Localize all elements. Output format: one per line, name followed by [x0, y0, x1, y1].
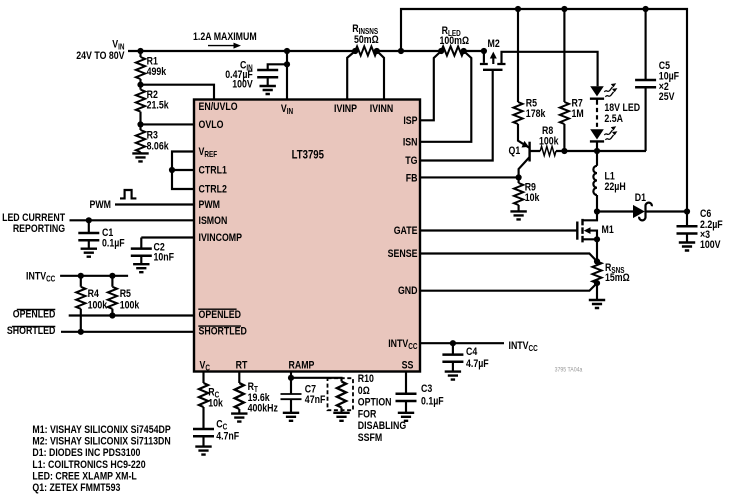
- svg-text:IVINN: IVINN: [370, 103, 393, 115]
- svg-text:FOR: FOR: [358, 409, 377, 421]
- svg-text:0.1µF: 0.1µF: [421, 395, 444, 407]
- svg-text:8.06k: 8.06k: [147, 141, 169, 153]
- svg-text:100k: 100k: [539, 136, 559, 148]
- svg-text:10k: 10k: [525, 192, 540, 204]
- svg-text:SSFM: SSFM: [358, 432, 382, 444]
- svg-text:0.1µF: 0.1µF: [102, 238, 125, 250]
- svg-text:M2: VISHAY SILICONIX Si7113DN: M2: VISHAY SILICONIX Si7113DN: [32, 436, 170, 448]
- svg-text:OVLO: OVLO: [199, 119, 224, 131]
- svg-text:22µH: 22µH: [605, 181, 626, 193]
- svg-text:PWM: PWM: [199, 199, 220, 211]
- svg-text:SENSE: SENSE: [388, 248, 418, 260]
- svg-text:SS: SS: [402, 360, 414, 372]
- svg-text:2.5A: 2.5A: [604, 113, 623, 125]
- svg-text:0Ω: 0Ω: [358, 385, 370, 397]
- svg-text:RT: RT: [236, 360, 248, 372]
- svg-text:100V: 100V: [232, 79, 253, 91]
- svg-text:100mΩ: 100mΩ: [440, 35, 470, 47]
- svg-text:100V: 100V: [700, 239, 721, 251]
- svg-text:400kHz: 400kHz: [248, 403, 278, 415]
- svg-text:3795 TA04a: 3795 TA04a: [555, 367, 583, 374]
- svg-text:M2: M2: [488, 38, 501, 50]
- svg-text:50mΩ: 50mΩ: [354, 34, 379, 46]
- svg-text:GND: GND: [398, 285, 418, 297]
- svg-text:24V TO 80V: 24V TO 80V: [76, 50, 125, 62]
- svg-text:25V: 25V: [659, 91, 675, 103]
- svg-text:47nF: 47nF: [305, 394, 326, 406]
- svg-text:4.7nF: 4.7nF: [216, 431, 239, 443]
- svg-text:C3: C3: [421, 383, 433, 395]
- svg-text:CTRL2: CTRL2: [199, 184, 228, 196]
- svg-text:21.5k: 21.5k: [147, 100, 169, 112]
- svg-text:D1: DIODES INC PDS3100: D1: DIODES INC PDS3100: [32, 447, 140, 459]
- svg-text:10k: 10k: [208, 398, 223, 410]
- svg-text:LED: CREE XLAMP XM-L: LED: CREE XLAMP XM-L: [32, 471, 136, 483]
- svg-text:M1: VISHAY SILICONIX Si7454DP: M1: VISHAY SILICONIX Si7454DP: [32, 424, 171, 436]
- svg-text:CTRL1: CTRL1: [199, 165, 228, 177]
- svg-text:OPENLED: OPENLED: [13, 309, 56, 321]
- svg-text:Q1: Q1: [509, 145, 521, 157]
- svg-text:15mΩ: 15mΩ: [605, 272, 630, 284]
- svg-text:10nF: 10nF: [154, 251, 175, 263]
- svg-text:1M: 1M: [572, 108, 584, 120]
- svg-text:REPORTING: REPORTING: [13, 223, 66, 235]
- svg-text:IVINP: IVINP: [334, 103, 357, 115]
- svg-text:RAMP: RAMP: [289, 360, 315, 372]
- svg-text:M1: M1: [602, 224, 615, 236]
- svg-text:FB: FB: [406, 173, 418, 185]
- svg-text:LT3795: LT3795: [292, 149, 324, 162]
- svg-text:L1: COILTRONICS HC9-220: L1: COILTRONICS HC9-220: [32, 459, 146, 471]
- svg-text:100k: 100k: [120, 300, 140, 312]
- svg-text:ISP: ISP: [403, 115, 417, 127]
- svg-text:OPENLED: OPENLED: [199, 309, 242, 321]
- svg-text:ISMON: ISMON: [199, 215, 228, 227]
- svg-text:GATE: GATE: [394, 225, 418, 237]
- svg-text:SHORTLED: SHORTLED: [199, 326, 247, 338]
- svg-text:PWM: PWM: [90, 199, 111, 211]
- svg-text:DISABLING: DISABLING: [358, 420, 407, 432]
- svg-text:ISN: ISN: [403, 136, 418, 148]
- svg-text:TG: TG: [405, 155, 417, 167]
- svg-text:IVINCOMP: IVINCOMP: [199, 232, 243, 244]
- svg-text:1.2A MAXIMUM: 1.2A MAXIMUM: [193, 31, 257, 43]
- svg-text:4.7µF: 4.7µF: [466, 358, 489, 370]
- svg-text:C4: C4: [466, 346, 478, 358]
- svg-text:OPTION: OPTION: [358, 397, 392, 409]
- svg-text:499k: 499k: [147, 66, 167, 78]
- svg-text:EN/UVLO: EN/UVLO: [199, 101, 238, 113]
- svg-text:100k: 100k: [88, 300, 108, 312]
- svg-text:178k: 178k: [526, 108, 546, 120]
- svg-text:Q1: ZETEX FMMT593: Q1: ZETEX FMMT593: [32, 482, 120, 494]
- svg-text:R10: R10: [358, 373, 375, 385]
- svg-text:D1: D1: [635, 192, 647, 204]
